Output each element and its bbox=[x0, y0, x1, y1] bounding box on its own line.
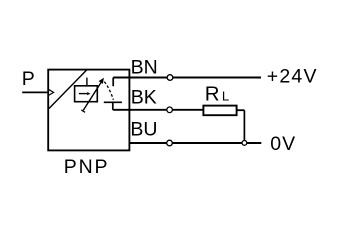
svg-text:0V: 0V bbox=[270, 133, 296, 155]
svg-text:+24V: +24V bbox=[267, 65, 318, 87]
svg-text:R: R bbox=[205, 83, 220, 106]
svg-text:BU: BU bbox=[130, 118, 157, 140]
svg-text:BN: BN bbox=[131, 56, 158, 78]
svg-text:L: L bbox=[222, 88, 229, 103]
svg-text:P: P bbox=[22, 68, 35, 90]
svg-text:PNP: PNP bbox=[64, 156, 110, 178]
svg-text:BK: BK bbox=[131, 86, 157, 108]
